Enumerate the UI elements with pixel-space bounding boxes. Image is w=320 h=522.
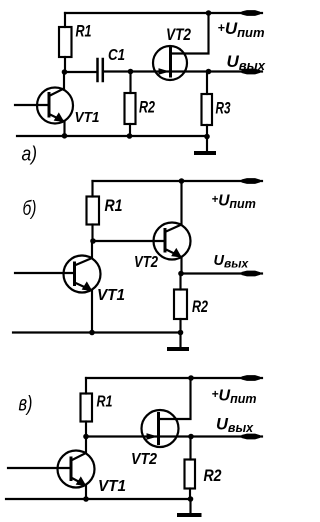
ground (v) [179,499,200,515]
svg-text:б): б) [23,198,37,220]
wire R1 junction to C1 (a) [65,71,97,73]
node junction VT1 emitter / bottom rail (b) [89,330,95,336]
node junction top rail / VT2 collector (a) [206,10,212,16]
node junction ground (b) [178,330,184,336]
wire bottom rail (b) [13,331,181,333]
svg-text:в): в) [19,393,33,416]
node junction R1 bottom / VT1 collector (v) [83,434,89,440]
svg-text:а): а) [22,144,38,166]
resistor R1 (b) [87,181,100,241]
svg-text:VT2: VT2 [131,451,157,468]
transistor VT2 (b) [154,181,191,274]
arrow +Upit rail end (v) [242,376,260,381]
wire bottom rail (a) [17,135,207,137]
wire top supply rail (a) [65,12,262,14]
svg-text:C1: C1 [108,47,125,64]
node junction R2 top (a) [128,69,134,75]
resistor R2 (a) [125,72,136,137]
ground (b) [169,333,187,350]
node junction VT1 emitter / bottom rail (v) [83,496,89,502]
wire C1 to R2 node and through VT2 to output node (a) [104,70,209,72]
transistor VT2 (a) [153,13,209,80]
svg-text:+Uпит: +Uпит [218,19,265,40]
node junction R2 bottom / bottom rail (a) [127,133,133,139]
resistor R3 (a) [202,72,213,137]
node junction top rail / VT2 collector (v) [188,375,194,381]
svg-text:R1: R1 [97,394,113,411]
wire output Uvyh (b) [181,272,262,274]
capacitor C1 [98,59,103,81]
svg-text:VT2: VT2 [166,25,191,44]
node junction output / R2 top (v) [188,434,194,440]
transistor VT1 (a) [15,72,73,136]
svg-text:R2: R2 [139,98,155,117]
node junction ground (v) [188,496,194,502]
node junction R1 bottom / VT1 collector / VT2 base (b) [90,238,96,244]
svg-text:+Uпит: +Uпит [212,193,256,212]
svg-text:R2: R2 [192,297,208,316]
svg-text:VT1: VT1 [75,110,100,126]
transistor VT1 (v) [8,437,95,500]
arrow output Uvyh (a) [242,69,260,74]
svg-text:VT2: VT2 [134,254,158,271]
wire bottom rail (v) [6,498,191,500]
svg-text:VT1: VT1 [97,287,125,304]
node junction ground (a) [204,134,210,140]
transistor VT1 (b) [15,241,101,333]
wire R1 junction to VT2 base (b) [93,240,165,242]
wire output Uvyh (a) [209,70,263,72]
arrow +Upit rail end (a) [242,11,260,16]
node junction VT2 emitter / output / R2 top (b) [178,271,184,277]
resistor R2 (b) [174,274,187,333]
node junction VT1 emitter / bottom rail (a) [62,133,68,139]
svg-text:R1: R1 [76,22,92,41]
svg-text:R2: R2 [204,466,222,485]
arrow output Uvyh (v) [242,434,260,439]
wire top supply rail (v) [86,377,262,379]
wire R1 junction through VT2 to output node (v) [86,435,262,437]
svg-text:Uвых: Uвых [227,52,266,73]
ground (a) [196,137,214,154]
node junction R1 bottom / VT1 collector (a) [62,69,68,75]
arrow +Upit rail end (b) [242,179,260,184]
node junction top rail / VT2 collector (b) [179,178,185,184]
resistor R2 (v) [185,437,196,500]
transistor VT2 (v) [142,378,191,447]
resistor R1 (a) [59,13,72,72]
arrow output Uvyh (b) [242,271,260,276]
resistor R1 (v) [81,378,93,437]
svg-text:Uвых: Uвых [216,416,254,436]
svg-text:VT1: VT1 [98,478,126,495]
svg-text:+Uпит: +Uпит [212,387,257,406]
svg-text:R1: R1 [105,196,123,215]
node junction output / R3 top (a) [206,69,212,75]
svg-text:R3: R3 [216,99,231,118]
svg-text:Uвых: Uвых [214,253,250,271]
wire top supply rail (b) [93,180,263,182]
